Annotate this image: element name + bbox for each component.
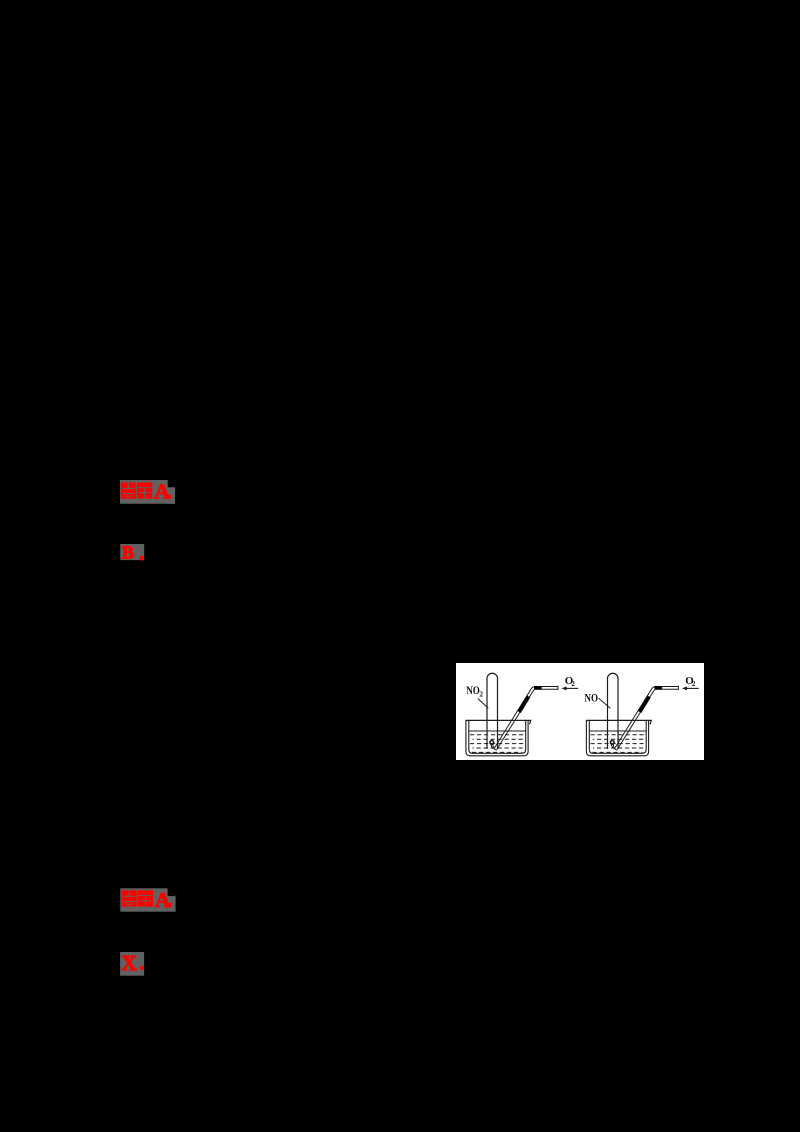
answer block B (B。 highlight) [119, 543, 147, 563]
svg-text:A: A [154, 480, 170, 504]
answer block A (答案A highlight) [119, 479, 177, 505]
NO2 pointer line [478, 699, 489, 709]
NO pointer line [599, 698, 611, 708]
right apparatus [586, 673, 699, 756]
answer block C (答案A。 highlight) [119, 887, 178, 914]
answer block D (X。 highlight) [119, 951, 147, 978]
NO2 label (left) [466, 685, 480, 697]
svg-text:2: 2 [480, 690, 484, 698]
chemistry diagram panel [456, 663, 704, 760]
left apparatus [465, 673, 578, 756]
svg-text:NO: NO [466, 685, 480, 697]
svg-text:B: B [122, 543, 134, 563]
svg-text:NO: NO [584, 692, 598, 704]
svg-text:X: X [122, 951, 137, 975]
svg-text:A: A [155, 888, 171, 912]
NO label (right) [584, 692, 598, 704]
